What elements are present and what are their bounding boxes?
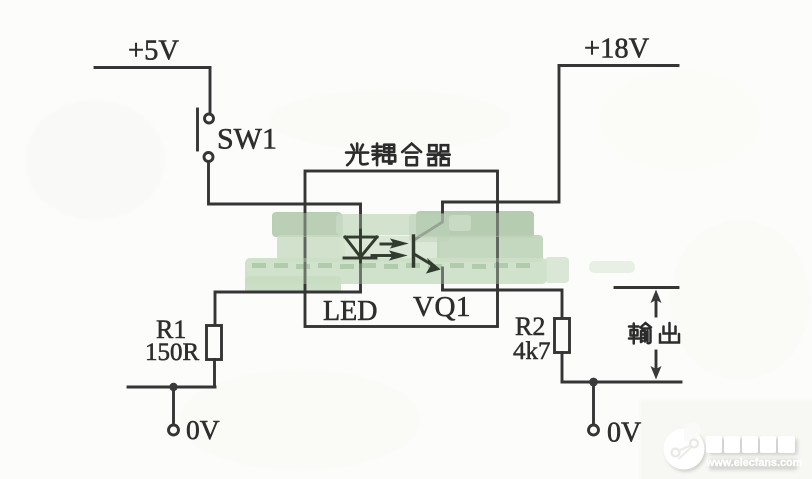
- output arrowhead up: [651, 290, 662, 304]
- terminal 0V left: [169, 425, 179, 435]
- wire left 0V rail: [128, 386, 215, 389]
- re-inked symbols over watermark: [344, 230, 434, 266]
- LED anode lead: [359, 204, 362, 292]
- svg-text:LED: LED: [323, 296, 377, 327]
- svg-text:0V: 0V: [186, 414, 220, 445]
- terminal 0V right: [589, 425, 599, 435]
- svg-text:+18V: +18V: [584, 34, 650, 65]
- LED D1 symbol re-ink: [344, 230, 377, 262]
- LED D1 symbol: [344, 237, 377, 258]
- svg-text:R2: R2: [515, 312, 545, 341]
- wire +5V rail horizontal: [95, 66, 210, 69]
- VQ1 emitter arrowhead re-ink: [426, 258, 441, 274]
- svg-text:www.elecfans.com: www.elecfans.com: [705, 457, 802, 469]
- char 耦: [373, 144, 396, 166]
- char 合: [402, 144, 421, 166]
- switch SW1 top contact: [205, 114, 214, 123]
- resistor R2 body: [555, 319, 570, 353]
- switch SW1 bottom contact: [204, 153, 213, 162]
- label 输出 (output): [629, 323, 679, 344]
- optocoupler box U1: [305, 171, 498, 327]
- wire LED cathode to R1: [215, 292, 361, 325]
- output arrow shaft up: [655, 300, 658, 316]
- R1 bottom lead: [213, 360, 216, 388]
- wire 0V stub right: [592, 382, 595, 425]
- junction dot right: [589, 378, 598, 387]
- svg-text:+5V: +5V: [128, 36, 179, 67]
- light arrow 2 shaft: [372, 254, 396, 257]
- svg-text:4k7: 4k7: [513, 338, 551, 365]
- R2 bottom lead: [561, 353, 564, 383]
- VQ1 emitter lead: [414, 254, 443, 290]
- wire emitter to R2: [443, 290, 563, 319]
- svg-text:VQ1: VQ1: [413, 291, 471, 323]
- svg-text:150R: 150R: [145, 339, 200, 366]
- wire right 0V rail: [562, 381, 681, 384]
- label 光耦合器 (optocoupler title): [346, 144, 450, 166]
- VQ1 base bar re-ink: [412, 236, 415, 266]
- resistor R1 body: [207, 326, 222, 360]
- switch SW1 lever: [196, 109, 199, 150]
- light arrow 1 head: [390, 239, 409, 249]
- light arrow 2 head re-ink: [389, 251, 408, 261]
- wire +18V rail horizontal: [559, 64, 678, 67]
- char 光: [346, 144, 368, 166]
- wire +5V drop to switch: [209, 68, 212, 115]
- output arrow shaft down: [655, 351, 658, 370]
- light arrow 1 shaft: [381, 243, 398, 246]
- green watermark band (mosaic): [245, 211, 635, 293]
- VQ1 base bar: [412, 236, 415, 266]
- light arrow shafts re-ink: [372, 244, 398, 256]
- wire +18V drop: [443, 66, 560, 203]
- wire switch to LED node: [209, 162, 361, 205]
- svg-text:0V: 0V: [607, 418, 641, 449]
- light arrow 1 head re-ink: [390, 239, 409, 249]
- output arrowhead down: [651, 366, 662, 380]
- svg-text:SW1: SW1: [217, 123, 277, 156]
- output reference line: [615, 286, 678, 289]
- VQ1 collector lead: [414, 202, 443, 240]
- char 器: [428, 145, 450, 165]
- VQ1 emitter re-ink: [414, 254, 434, 266]
- circuit strokes: [95, 66, 681, 436]
- wire 0V stub left: [172, 387, 175, 425]
- char 出: [660, 323, 679, 343]
- elecfans watermark text: [705, 436, 802, 469]
- junction dot left: [169, 383, 177, 391]
- elecfans watermark logo: [664, 423, 798, 472]
- char 输: [629, 323, 651, 344]
- VQ1 emitter arrowhead: [426, 258, 441, 274]
- green watermark overlay (over strokes): [245, 213, 547, 284]
- light arrow 2 head: [389, 251, 408, 261]
